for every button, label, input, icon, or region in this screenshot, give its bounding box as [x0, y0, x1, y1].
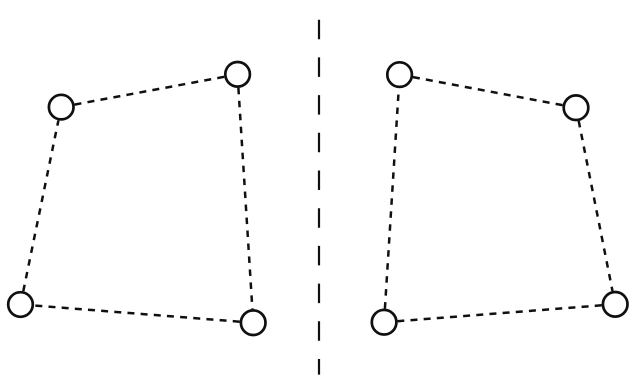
right quad edge C'-B' (left) [385, 88, 399, 308]
right quad edge D'-C' (bottom) [398, 305, 602, 321]
right vertex circle C' (bottom-left) [372, 310, 397, 335]
right quad edge A'-D' (right) [579, 121, 613, 291]
right quad edge B'-A' (top) [413, 77, 563, 105]
left quad edge D-A (left) [23, 121, 58, 292]
right vertex circle B' (top-left) [387, 62, 412, 87]
left vertex circle C (bottom-right) [241, 310, 266, 335]
left vertex circle D (bottom-left) [8, 292, 33, 317]
mirror axis (vertical dashed line) [318, 20, 320, 375]
left quad edge B-C (right) [238, 88, 252, 309]
right vertex circle D' (bottom-right) [603, 292, 628, 317]
left vertex circle B (top-right) [225, 62, 250, 87]
left quad edge A-B (top) [75, 77, 225, 105]
right vertex circle A' (top-right) [564, 95, 589, 120]
left quad edge C-D (bottom) [34, 306, 240, 322]
left vertex circle A (top-left) [49, 95, 74, 120]
